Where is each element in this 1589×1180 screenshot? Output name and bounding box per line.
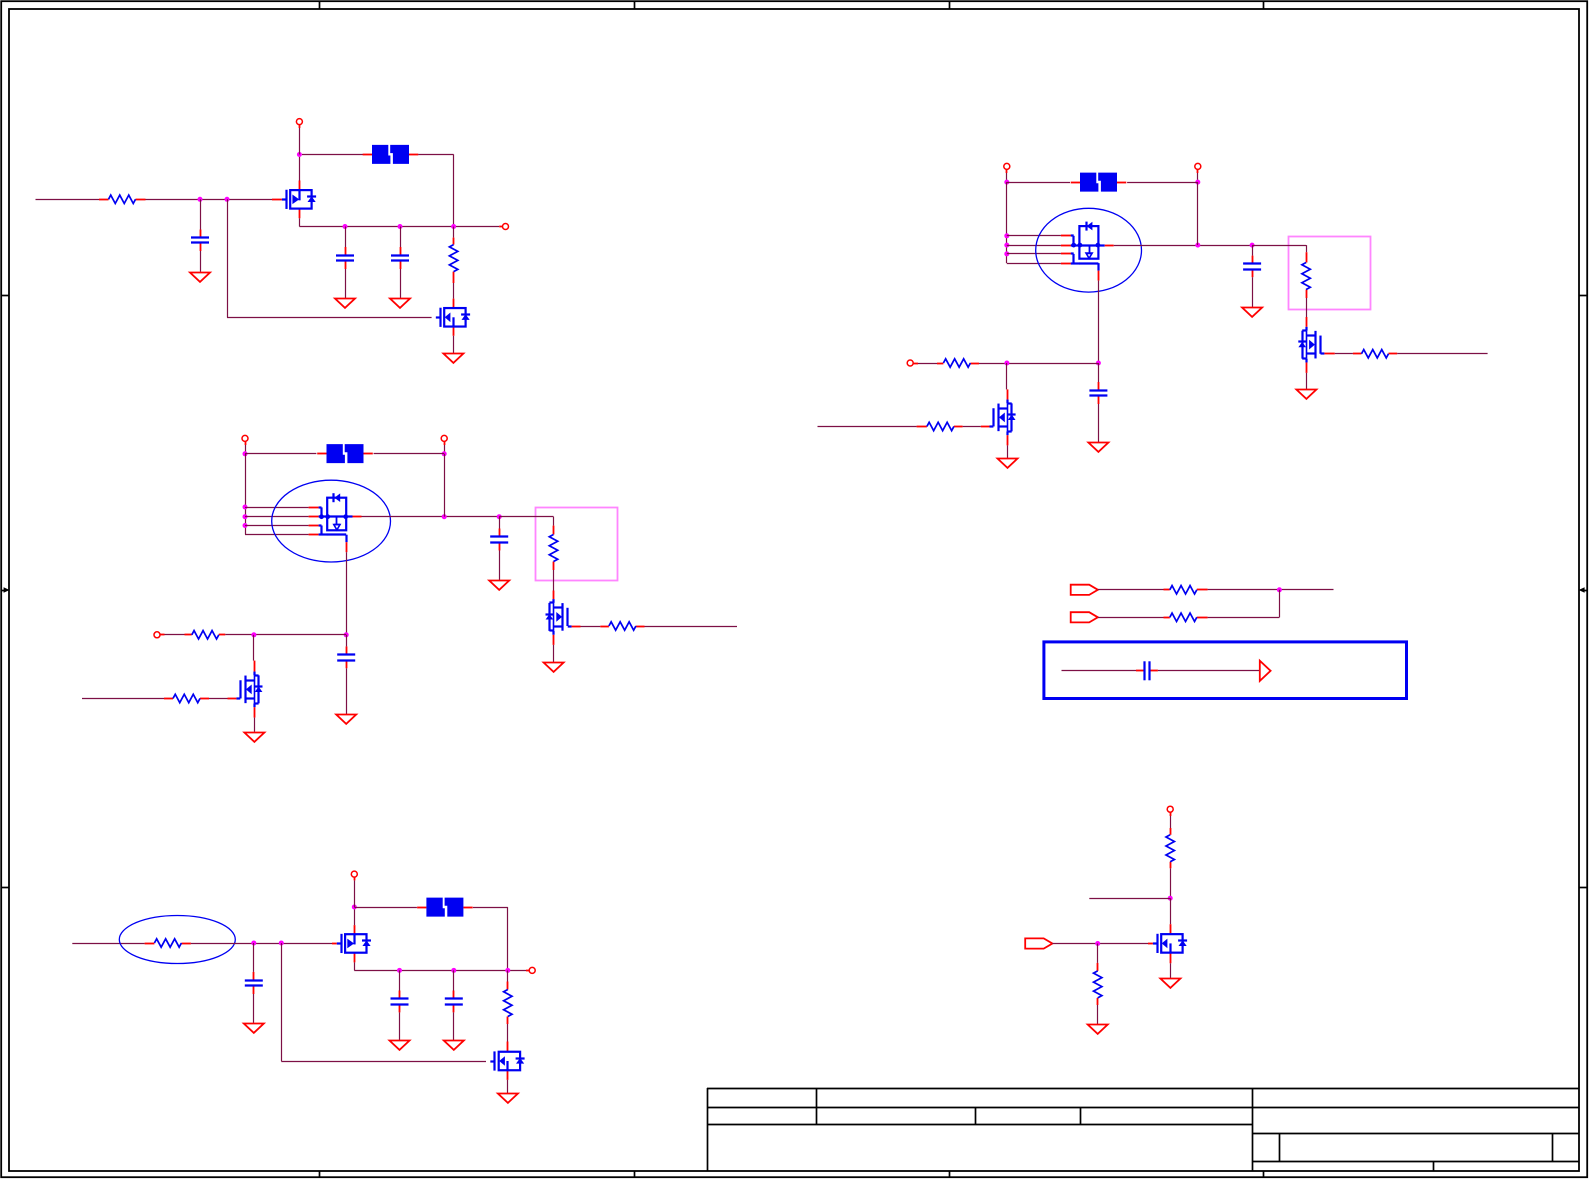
wire J5a to C9 xyxy=(253,943,255,972)
node junction J5c xyxy=(352,905,357,910)
wire C1 to ground xyxy=(200,251,202,272)
wire Q4 source up xyxy=(354,907,356,925)
title block (empty) xyxy=(707,1088,1579,1171)
transistor Q2 N-MOSFET xyxy=(436,299,470,336)
node junction J2i xyxy=(251,632,256,637)
wire C3 to ground xyxy=(400,269,402,298)
ground below M3 xyxy=(544,663,564,672)
wire R11 to right xyxy=(1208,589,1334,591)
wire M2 pin2 xyxy=(245,516,309,518)
node junction J3g xyxy=(1250,243,1255,248)
highlight ellipse around R13 xyxy=(119,916,235,964)
wire M3 gate to R4 xyxy=(581,626,601,628)
node junction J6a xyxy=(1168,896,1173,901)
wire input net left xyxy=(36,199,100,201)
wire M1 pin2 xyxy=(1007,245,1061,247)
wire input net bottom-left xyxy=(72,943,144,945)
node junction J5d xyxy=(397,968,402,973)
wire bus to C10 xyxy=(399,970,401,990)
wire Q6 gate vertical xyxy=(281,943,283,1061)
wire C5 to ground xyxy=(346,668,348,714)
ground below M4 xyxy=(1296,390,1316,399)
wire top bus to fuse F3 xyxy=(1007,182,1070,184)
resistor R12 xyxy=(1164,613,1208,621)
transistor Q7 N-MOSFET xyxy=(1148,924,1187,963)
ground below Q7 xyxy=(1160,979,1180,988)
terminal T9 (supply) xyxy=(351,871,357,877)
resistor R6 xyxy=(164,694,209,702)
pin red M2 pin2 xyxy=(309,516,319,518)
ground below C11 xyxy=(444,1041,464,1050)
resistor R11 xyxy=(1164,586,1208,594)
resistor R13 xyxy=(145,939,191,947)
pin red terminal T2 xyxy=(499,226,502,228)
fuse F2 xyxy=(317,444,373,463)
pin red terminal T5 xyxy=(160,634,164,636)
wire M4 gate to R8 xyxy=(1335,353,1353,355)
wire J2i down to Q3 xyxy=(253,635,255,661)
wire gate net to left edge xyxy=(82,698,164,700)
node junction J2c xyxy=(243,505,248,510)
wire F1 to corner xyxy=(418,154,453,156)
transistor Q6 N-MOSFET xyxy=(490,1042,524,1080)
pin red terminal T10 xyxy=(526,970,529,972)
capacitor C5 xyxy=(337,646,355,668)
node junction J2h xyxy=(344,632,349,637)
highlight ellipse around M1 xyxy=(1036,208,1142,292)
node junction J2g xyxy=(497,514,502,519)
terminal T4 xyxy=(441,435,447,441)
wire Q1 drain down xyxy=(299,218,301,226)
wire R9 to J3i xyxy=(979,363,1098,365)
node junction J5a xyxy=(251,941,256,946)
ground below C5 xyxy=(336,715,356,724)
wire T11 down xyxy=(1170,816,1172,828)
wire J6b down to R16 xyxy=(1097,944,1099,963)
wire R2 to Q2 drain xyxy=(453,283,455,299)
ground below C10 xyxy=(390,1041,410,1050)
terminal T3 xyxy=(242,435,248,441)
wire into pink box xyxy=(499,516,553,518)
node junction J2b xyxy=(442,451,447,456)
signal arrow (red) in note box xyxy=(1260,661,1271,681)
wire bus to R14 xyxy=(507,970,509,981)
wire Q2 source down xyxy=(453,336,455,353)
capacitor C9 xyxy=(245,972,263,994)
wire T4 bus down xyxy=(444,454,446,517)
ground below C9 xyxy=(244,1024,264,1033)
wire Q5 gate from R10 xyxy=(963,426,981,428)
wire R8 to right (net) xyxy=(1397,353,1487,355)
wire M1 pin3 xyxy=(1007,253,1061,255)
pin red terminal T4 xyxy=(444,442,446,445)
pin red M2 pin3 xyxy=(309,525,319,527)
wire bus to R2 xyxy=(453,227,455,238)
node junction J1e xyxy=(398,224,403,229)
node junction J3a xyxy=(1004,180,1009,185)
terminal T7 xyxy=(1195,163,1201,169)
wire C8 to arrow xyxy=(1158,670,1260,672)
transistor Q5 N-MOSFET xyxy=(981,389,1016,445)
hierarchical port P2 xyxy=(1071,612,1098,622)
wire T3 down xyxy=(245,445,247,454)
pin red M1 pin3 xyxy=(1061,253,1071,255)
pin red terminal T8 xyxy=(913,363,918,365)
terminal T11 xyxy=(1167,806,1173,812)
node junction J6b xyxy=(1095,941,1100,946)
wire bus to C11 xyxy=(453,970,455,990)
wire bus to C2 xyxy=(345,227,347,248)
node junction J3f xyxy=(1195,243,1200,248)
wire R13 to Q4 gate xyxy=(191,943,332,945)
pin red terminal T3 xyxy=(245,442,247,445)
wire left bus down xyxy=(1006,182,1008,263)
wire J2h to C5 xyxy=(346,635,348,647)
terminal T10 (output) xyxy=(529,967,535,973)
wire R14 to Q6 xyxy=(507,1024,509,1042)
wire M2 drain to right xyxy=(362,516,500,518)
node junction J2f xyxy=(442,514,447,519)
ground below Q2 xyxy=(443,354,463,363)
border centering arrow left xyxy=(1,587,9,593)
border zone ticks bottom edge xyxy=(320,1171,1264,1177)
wire Q3 gate from R6 xyxy=(209,698,228,700)
wire Q6 gate horizontal xyxy=(281,1061,486,1063)
pin red terminal T9 xyxy=(354,877,356,880)
wire M4 source down xyxy=(1306,373,1308,389)
wire junction to terminal xyxy=(299,128,301,155)
wire J3g to C6 xyxy=(1252,245,1254,256)
capacitor C10 xyxy=(391,991,409,1013)
wire corner down to R7 xyxy=(1306,245,1308,252)
pin red M2 pin4 xyxy=(309,534,319,536)
transistor M4 N-MOSFET xyxy=(1298,317,1335,373)
border centering arrow right xyxy=(1579,587,1588,593)
ground below C3 xyxy=(390,299,410,308)
fuse F4 xyxy=(417,898,473,917)
wire into pink box 2 xyxy=(1252,245,1306,247)
wire corner up to J4a xyxy=(1279,590,1281,618)
ground below Q5 xyxy=(998,459,1018,468)
wire Q4 drain down xyxy=(354,962,356,970)
wire F4 to corner xyxy=(473,907,508,909)
wire J2g to C4 xyxy=(499,517,501,529)
node junction J1d xyxy=(343,224,348,229)
transistor M2 load-switch P-MOSFET xyxy=(319,493,362,552)
wire C7 to ground xyxy=(1098,404,1100,443)
wire corner down to R3 xyxy=(553,517,555,526)
hierarchical port P1 xyxy=(1071,585,1098,595)
wire M1 drain to right xyxy=(1114,245,1252,247)
transistor Q4 P-MOSFET xyxy=(332,925,371,962)
wire J5c to fuse F4 xyxy=(354,907,417,909)
wire P2 to R12 xyxy=(1098,617,1164,619)
wire R7 to M4 xyxy=(1306,298,1308,317)
wire J6a down to Q7 xyxy=(1170,898,1172,924)
node junction J4a xyxy=(1277,587,1282,592)
wire inside note box xyxy=(1062,670,1137,672)
wire gate net to left xyxy=(818,426,917,428)
border zone ticks left edge xyxy=(1,296,9,888)
node junction J2a xyxy=(243,451,248,456)
node junction J5e xyxy=(451,968,456,973)
wire Q2 gate net vertical xyxy=(227,199,229,317)
pin red terminal T7 xyxy=(1197,170,1199,173)
wire C2 to ground xyxy=(345,269,347,298)
node junction J3b xyxy=(1195,180,1200,185)
ground below Q3 xyxy=(244,733,264,742)
wire R4 to right (net) xyxy=(645,626,738,628)
transistor M1 load-switch P-MOSFET xyxy=(1071,222,1114,281)
resistor R8 xyxy=(1353,350,1397,358)
wire M1 pin1 xyxy=(1007,235,1061,237)
capacitor C4 xyxy=(490,529,508,551)
node junction J3e xyxy=(1004,251,1009,256)
wire J3i down to Q5 xyxy=(1006,363,1008,389)
node junction J1f xyxy=(451,224,456,229)
hierarchical port P3 xyxy=(1025,938,1052,948)
ground below C6 xyxy=(1242,308,1262,317)
wire M3 source down xyxy=(553,645,555,662)
wire J1a to C1 xyxy=(200,199,202,229)
resistor R3 (in pink box) xyxy=(549,526,557,570)
capacitor C7 xyxy=(1089,382,1107,404)
node junction J1a xyxy=(198,197,203,202)
resistor R16 xyxy=(1094,963,1102,1005)
terminal T8 xyxy=(907,360,913,366)
wire J5c to terminal xyxy=(354,880,356,907)
node junction J2d xyxy=(243,514,248,519)
node junction J3d xyxy=(1004,243,1009,248)
node junction J1b xyxy=(225,197,230,202)
capacitor C1 input xyxy=(191,230,209,252)
wire T7 down xyxy=(1197,173,1199,182)
hierarchical block outline (pink) 2 xyxy=(1289,237,1371,310)
wire Q2 gate net horizontal xyxy=(227,317,432,319)
wire junction to fuse F1 xyxy=(302,154,363,156)
resistor R5 xyxy=(185,631,226,639)
capacitor C2 xyxy=(336,247,354,269)
wire M2 pin4 xyxy=(245,534,309,536)
ground below R16 xyxy=(1088,1025,1108,1034)
wire top bus to fuse F2 xyxy=(245,453,316,455)
wire stub left xyxy=(1089,898,1170,900)
wire J3h to C7 xyxy=(1098,363,1100,382)
resistor R14 xyxy=(504,982,512,1025)
terminal T6 xyxy=(1004,163,1010,169)
transistor Q3 N-MOSFET xyxy=(228,661,263,718)
wire corner down to output bus xyxy=(453,154,455,226)
wire R3 to M3 xyxy=(553,570,555,591)
wire output bus 4 xyxy=(354,970,526,972)
ground below C4 xyxy=(489,581,509,590)
wire R1 to Q1 gate xyxy=(146,199,273,201)
wire T4 down xyxy=(444,445,446,454)
node junction J3h xyxy=(1096,361,1101,366)
wire T6 down xyxy=(1006,173,1008,182)
resistor R2 xyxy=(449,238,457,283)
wire corner down to bus xyxy=(507,907,509,970)
border zone ticks top edge xyxy=(320,1,1264,9)
wire Q6 source down xyxy=(507,1080,509,1094)
wire Q5 source down xyxy=(1007,445,1009,458)
wire P1 to R11 xyxy=(1098,589,1164,591)
pin red M1 pin2 xyxy=(1061,245,1071,247)
terminal T1 (input supply) xyxy=(296,119,302,125)
transistor M3 N-MOSFET xyxy=(546,591,581,645)
pin red terminal T11 xyxy=(1170,812,1172,816)
wire C9 to ground xyxy=(253,994,255,1023)
fuse F1 xyxy=(363,145,419,164)
node junction J1c xyxy=(297,152,302,157)
wire output bus 1 xyxy=(299,226,499,228)
wire R5 to J2i xyxy=(225,634,346,636)
wire bus to C3 xyxy=(400,227,402,248)
ground below C1 xyxy=(190,273,210,282)
wire C10 to ground xyxy=(399,1012,401,1040)
capacitor C3 xyxy=(391,247,409,269)
resistor R1 xyxy=(99,195,146,203)
wire F2 to J2b xyxy=(374,453,445,455)
wire M1 pin4 xyxy=(1007,263,1061,265)
fuse F3 xyxy=(1071,173,1127,192)
pin red M1 pin1 xyxy=(1061,235,1071,237)
resistor R9 xyxy=(937,359,979,367)
wire C4 to ground xyxy=(499,551,501,581)
wire R12 to corner xyxy=(1208,617,1280,619)
ground below Q6 xyxy=(498,1094,518,1103)
resistor R4 xyxy=(600,622,644,630)
wire T8 to R9 xyxy=(918,363,937,365)
node junction J3i xyxy=(1004,361,1009,366)
wire Q7 source down xyxy=(1170,963,1172,978)
wire left bus down xyxy=(245,454,247,535)
wire R15 to J6a xyxy=(1170,868,1172,898)
node junction J2e xyxy=(243,523,248,528)
wire M1 gate down xyxy=(1098,281,1100,363)
highlight ellipse around M2 xyxy=(272,480,391,562)
ground below C2 xyxy=(335,299,355,308)
wire T7 bus down xyxy=(1197,182,1199,245)
wire C11 to ground xyxy=(453,1012,455,1040)
resistor R7 (in pink box) xyxy=(1302,252,1310,298)
resistor R10 xyxy=(917,422,963,430)
wire Q1 source up xyxy=(299,155,301,181)
terminal T5 xyxy=(154,632,160,638)
wire Q3 source down xyxy=(254,718,256,732)
pin red M1 pin4 xyxy=(1061,263,1071,265)
wire F3 to J3b xyxy=(1127,182,1198,184)
node junction J5f xyxy=(505,968,510,973)
resistor R15 xyxy=(1166,828,1174,868)
pin red terminal T6 xyxy=(1006,170,1008,173)
wire M2 pin1 xyxy=(245,507,309,509)
wire P3 to Q7 gate xyxy=(1052,943,1148,945)
wire R16 to ground xyxy=(1097,1005,1099,1024)
capacitor C8 (coupling) xyxy=(1136,661,1158,680)
pin red M2 pin1 xyxy=(309,507,319,509)
wire C6 to ground xyxy=(1252,277,1254,307)
node junction J3c xyxy=(1004,233,1009,238)
note box (blue) around coupling net xyxy=(1044,642,1407,699)
pin red terminal T1 xyxy=(299,125,301,128)
ground below C7 xyxy=(1088,443,1108,452)
hierarchical block outline (pink) 1 xyxy=(536,508,618,581)
transistor Q1 P-MOSFET xyxy=(272,181,316,219)
border zone ticks right edge xyxy=(1579,296,1587,888)
capacitor C11 xyxy=(445,991,463,1013)
wire M2 gate down xyxy=(346,552,348,635)
node junction J5b xyxy=(279,941,284,946)
wire T5 to R5 xyxy=(165,634,185,636)
wire M2 pin3 xyxy=(245,525,309,527)
capacitor C6 xyxy=(1243,256,1261,278)
terminal T2 (output) xyxy=(503,224,509,230)
